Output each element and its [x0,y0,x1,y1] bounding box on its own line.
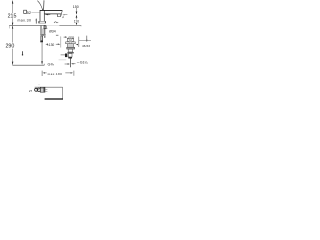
node B: arrowhead at deck [12,23,13,26]
wire: outlet ext stub [63,13,68,15]
node W: dim 46-53 [76,44,78,45]
wire: deck line left [9,24,45,26]
node R: up arrow under outlet line [76,15,78,18]
node AB: side block [65,54,67,58]
capacitor C1: aerator tip [57,14,61,17]
wire: bottom reference line [12,64,44,66]
svg-text:G1¼: G1¼ [80,60,89,64]
node T: down arrow to deck [76,23,77,25]
wire: rod links [45,89,48,91]
svg-text:215: 215 [8,13,17,19]
node H: label square-52 [24,10,27,13]
node P: dimension approx 130 [45,44,48,45]
capacitor C2: left hose [41,36,43,41]
wire: left dimension line [12,1,14,14]
svg-text:≈130: ≈130 [47,43,54,47]
wire: leader from 52 label [31,12,39,14]
node I: arrow under spout pointing left [45,14,49,15]
node K: base plate [39,21,46,23]
svg-text:27: 27 [29,89,33,93]
svg-text:290: 290 [5,44,14,50]
node AI: box outline [62,87,64,99]
node AD: rod arrows [65,63,69,65]
diode D1: waste plug head with cross [67,38,73,42]
node M: flare lines [40,33,46,35]
node X: waste upper body [68,44,74,47]
wire: center rod [42,29,44,36]
node U: arrow and label dia 35 [64,36,67,38]
node AF: faint mark [38,84,40,86]
capacitor C3: right hose [43,36,45,38]
node Z: waste lower body [68,49,73,52]
node C: bottom arrowhead [12,62,13,65]
svg-text:Ø34: Ø34 [49,30,56,34]
transistor Q1: faucet lever [37,1,42,10]
wire: deck break squiggle [54,22,58,23]
svg-text:52: 52 [27,11,31,15]
svg-text:max.30: max.30 [17,19,31,23]
svg-text:G⅜: G⅜ [48,63,55,67]
node V: waste flange [66,42,76,44]
wire: angle leader near tip [63,14,65,17]
wire: basin faint line [59,59,67,61]
node L: mounting nut [44,26,46,29]
node AC: waste stem [68,54,72,58]
node AH: knob bar [40,87,45,92]
node AJ: small mark [22,51,24,55]
wire: right dim line upper [76,8,78,14]
capacitor C4: knob circles [35,88,38,91]
node N: hose connector foot [40,41,43,43]
wire: pull-rod top line [35,86,63,88]
resistor R2: shank below deck [40,26,42,35]
wire: projection ext line x60 [60,36,62,47]
wire: deck line right [59,24,81,26]
node AK: dimension max.180 [41,71,43,76]
wire: waste rod [69,59,71,68]
node Y: waste wide bar [67,47,75,49]
wire: spout bottom [44,13,61,15]
wire: spout top [40,9,63,11]
svg-text:46-53: 46-53 [82,44,90,48]
svg-text:150: 150 [73,5,79,9]
svg-text:max.180: max.180 [48,72,63,76]
wire: small dash [56,34,59,36]
node A: top arrowhead [12,0,13,3]
wire: faint deck segment [46,24,60,26]
resistor R1: faucet body edges [39,10,41,21]
node J: spout end face [61,11,63,16]
node AA: waste flange3 [67,52,73,53]
